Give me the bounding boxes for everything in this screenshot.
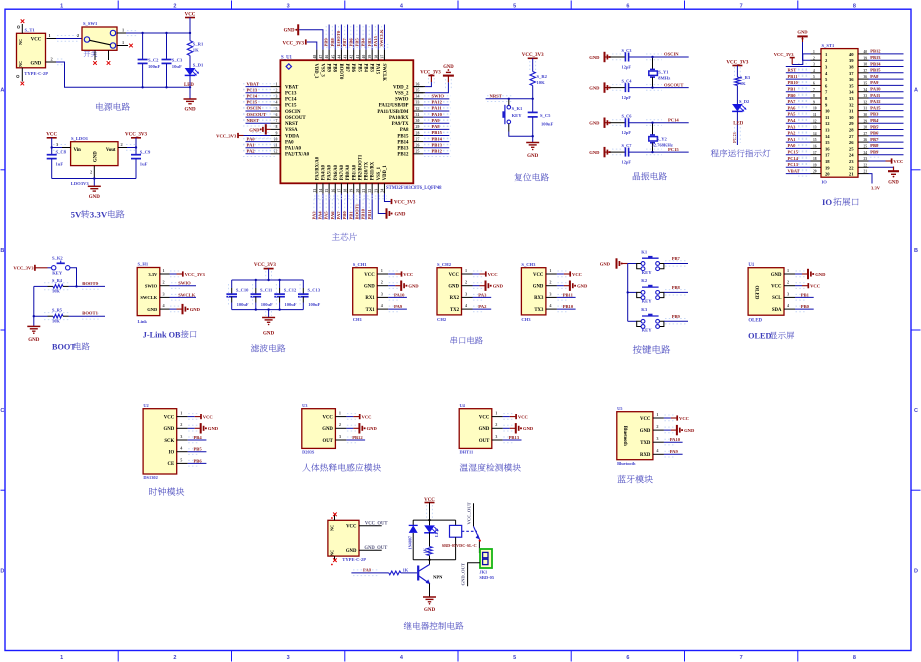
svg-text:Bluetooth: Bluetooth	[617, 461, 636, 466]
svg-text:S_D1: S_D1	[193, 63, 204, 68]
svg-text:7: 7	[740, 3, 743, 9]
svg-text:32: 32	[416, 107, 420, 111]
net label PB6 (U2 pin 5)	[188, 458, 207, 466]
net label PB5 (ST1 pin 28)	[869, 124, 904, 132]
svg-text:OLED: OLED	[748, 332, 771, 341]
svg-text:47: 47	[319, 55, 323, 59]
net label VCC_OUT	[359, 521, 388, 526]
svg-text:OUT: OUT	[322, 439, 333, 444]
svg-text:PB6: PB6	[194, 458, 203, 463]
svg-text:PB14: PB14	[397, 140, 409, 145]
net label PB0 (OLED pin 4)	[795, 304, 814, 312]
svg-text:TYPE-C-2P: TYPE-C-2P	[342, 557, 366, 562]
svg-text:SWIO: SWIO	[178, 281, 191, 286]
svg-text:37: 37	[849, 71, 854, 76]
svg-text:44: 44	[337, 55, 341, 59]
svg-text:S_R2: S_R2	[537, 74, 548, 79]
svg-text:6: 6	[276, 113, 278, 117]
svg-text:U1: U1	[748, 263, 754, 268]
ground GND (H1 pin 4)	[170, 304, 201, 314]
net label PB10 (CH3 pin 4)	[557, 304, 576, 312]
svg-text:1: 1	[122, 40, 124, 45]
capacitor S_C13 100uF	[298, 280, 321, 310]
svg-text:5: 5	[813, 75, 815, 79]
net label BOOT1	[82, 311, 98, 316]
svg-text:VCC: VCC	[679, 416, 689, 421]
net label BOOT0	[82, 281, 98, 286]
svg-text:35: 35	[849, 83, 854, 88]
svg-text:40: 40	[362, 55, 366, 59]
svg-text:D203S: D203S	[302, 450, 315, 455]
capacitor S_C12 100uF	[274, 280, 297, 310]
svg-text:PB8: PB8	[672, 285, 681, 290]
power port VCC (relay)	[424, 498, 435, 520]
net label PA2 (ST1 pin 14)	[786, 131, 811, 139]
net label PA5 (U1 bottom pin 15)	[324, 194, 329, 220]
svg-text:2: 2	[173, 655, 176, 661]
svg-text:VCC: VCC	[640, 417, 651, 422]
svg-text:PB12: PB12	[397, 153, 409, 158]
svg-text:OSCOUT: OSCOUT	[247, 112, 266, 117]
svg-text:PB1: PB1	[348, 211, 353, 220]
svg-text:15: 15	[325, 189, 329, 193]
pushbutton K1 KEY	[628, 249, 688, 274]
svg-text:3: 3	[549, 291, 551, 296]
svg-text:GND: GND	[771, 273, 782, 278]
net label PC15 (U1 pin 4)	[243, 100, 277, 108]
svg-text:VCC: VCC	[893, 159, 903, 164]
svg-text:21: 21	[864, 170, 868, 174]
svg-text:TX3: TX3	[534, 308, 544, 313]
net label PB15 (U1 pin 28)	[423, 130, 451, 138]
svg-text:16: 16	[825, 146, 830, 151]
power VCC (CH1 pin 1)	[388, 271, 413, 277]
svg-text:PA10/RX: PA10/RX	[389, 116, 409, 121]
svg-text:24: 24	[864, 151, 868, 155]
title 串口电路	[451, 336, 483, 344]
svg-text:LED: LED	[733, 122, 743, 127]
serial module S_CH3	[521, 262, 557, 322]
svg-text:Vout: Vout	[106, 148, 116, 153]
net label PB11 (ST1 pin 5)	[786, 74, 811, 82]
ground GND (BOOT)	[27, 316, 40, 343]
svg-text:21: 21	[849, 172, 854, 177]
svg-text:TX1: TX1	[366, 308, 376, 313]
svg-text:SRD-05VDC-SL-C: SRD-05VDC-SL-C	[442, 543, 477, 548]
svg-text:GND: GND	[493, 284, 504, 289]
svg-text:PB1/A0: PB1/A0	[352, 164, 357, 180]
resistor S_R5 10K	[33, 286, 105, 323]
capacitor S_C4 12pF / net OSCOUT	[589, 78, 688, 100]
svg-text:PB11: PB11	[563, 292, 574, 297]
power VCC_3V3 (VDDA pin 9)	[216, 132, 270, 138]
svg-text:PC14: PC14	[247, 94, 258, 99]
svg-text:8: 8	[276, 125, 278, 129]
dash row (top pins)	[326, 44, 389, 47]
svg-text:VCC_3V3: VCC_3V3	[13, 266, 34, 271]
resistor S_R1 1K	[187, 32, 204, 68]
svg-text:GND: GND	[589, 150, 600, 155]
net label BOOT0 (U1 top pin 44)	[336, 25, 341, 50]
svg-text:GND: GND	[577, 284, 588, 289]
svg-text:VCC_3V3: VCC_3V3	[254, 263, 276, 268]
relay coil SRD-05VDC-SL-C	[442, 520, 477, 560]
svg-text:PA3: PA3	[311, 211, 316, 220]
svg-text:PA8: PA8	[432, 124, 441, 129]
svg-text:S_Y2: S_Y2	[657, 136, 668, 141]
power VCC_3V3 (H1 pin 1)	[170, 271, 206, 277]
svg-text:33: 33	[416, 101, 420, 105]
svg-text:PB5: PB5	[870, 124, 879, 129]
svg-text:PA12: PA12	[870, 99, 881, 104]
svg-text:PA4: PA4	[318, 211, 323, 220]
svg-text:48: 48	[313, 55, 317, 59]
svg-text:42: 42	[350, 55, 354, 59]
net label SWIO (H1 pin 2)	[170, 281, 197, 289]
svg-text:GND: GND	[31, 61, 42, 66]
power VCC (CH3 pin 1)	[557, 271, 582, 277]
svg-text:5: 5	[513, 3, 516, 9]
net label PA9 (U5 pin 4)	[664, 449, 683, 457]
svg-text:6: 6	[813, 82, 815, 86]
power VCC (U4 pin 1)	[503, 414, 528, 420]
svg-text:VCC: VCC	[479, 415, 490, 420]
svg-text:8: 8	[853, 3, 856, 9]
svg-text:20: 20	[825, 172, 830, 177]
svg-text:12pF: 12pF	[622, 160, 632, 165]
capacitor S_C3 12pF / net OSCIN	[589, 48, 688, 70]
svg-text:PA12/USB/DP: PA12/USB/DP	[379, 104, 409, 109]
svg-text:OSCIN: OSCIN	[664, 52, 679, 57]
svg-text:S_C5: S_C5	[540, 113, 551, 118]
svg-text:PB0: PB0	[342, 211, 347, 220]
net label PB12 (U3 pin 3)	[346, 435, 365, 443]
svg-text:PC14: PC14	[668, 117, 679, 122]
svg-text:PB9: PB9	[672, 314, 681, 319]
svg-text:40: 40	[849, 52, 854, 57]
net label PA11 (U1 pin 32)	[423, 106, 451, 114]
svg-text:10K: 10K	[52, 289, 60, 294]
svg-text:S_C11: S_C11	[260, 287, 273, 292]
svg-text:11: 11	[813, 113, 817, 117]
power port VCC (LDO in)	[46, 133, 57, 148]
svg-text:1: 1	[60, 655, 63, 661]
net label PB4 (U1 top pin 40)	[361, 25, 366, 50]
svg-text:GND_OUT: GND_OUT	[460, 563, 465, 585]
power VCC (CH2 pin 1)	[473, 271, 498, 277]
net label PC14 (U1 pin 3)	[243, 94, 277, 102]
svg-text:GND: GND	[190, 307, 201, 312]
resistor 1K (relay LED)	[422, 547, 432, 560]
svg-text:35: 35	[864, 82, 868, 86]
svg-text:IO: IO	[169, 451, 175, 456]
svg-text:4: 4	[381, 303, 384, 308]
svg-text:10K: 10K	[52, 318, 60, 323]
net label PA12 (ST1 pin 32)	[869, 99, 904, 107]
svg-text:PA2: PA2	[478, 304, 487, 309]
svg-text:1: 1	[122, 27, 124, 32]
title 按键电路	[633, 345, 670, 354]
svg-text:GND: GND	[589, 86, 600, 91]
svg-text:29: 29	[849, 121, 854, 126]
svg-text:S_ST1: S_ST1	[822, 43, 835, 48]
svg-text:SCK: SCK	[164, 439, 174, 444]
svg-text:14: 14	[813, 132, 817, 136]
svg-text:PA12: PA12	[432, 100, 443, 105]
svg-text:PB0/A0: PB0/A0	[346, 164, 351, 180]
svg-text:KEY: KEY	[642, 328, 653, 333]
LED (relay)	[424, 520, 439, 546]
svg-text:RX2: RX2	[450, 296, 460, 301]
svg-text:VDD_2: VDD_2	[393, 85, 409, 90]
net label PB14 (U1 pin 27)	[423, 136, 451, 144]
svg-text:VSS_2: VSS_2	[395, 92, 409, 97]
svg-text:2: 2	[339, 422, 341, 427]
svg-text:PC15: PC15	[285, 104, 297, 109]
svg-text:1: 1	[465, 268, 467, 273]
dash row (bottom pins)	[314, 196, 387, 199]
svg-text:S_C3: S_C3	[622, 48, 633, 53]
svg-text:2: 2	[180, 422, 182, 427]
svg-text:27: 27	[849, 134, 854, 139]
svg-text:GND: GND	[600, 261, 611, 266]
svg-text:VCC: VCC	[362, 415, 372, 420]
pushbutton S_K1 KEY	[502, 98, 532, 137]
svg-text:PC13: PC13	[732, 132, 737, 143]
svg-text:TX2: TX2	[450, 308, 460, 313]
power VCC_3V3 (ST1 pin 1)	[774, 52, 811, 65]
svg-text:33: 33	[864, 94, 868, 98]
svg-text:8: 8	[853, 655, 856, 661]
svg-text:10uF: 10uF	[172, 64, 182, 69]
svg-text:19: 19	[825, 165, 830, 170]
svg-text:PB5: PB5	[194, 447, 203, 452]
transistor NPN	[418, 560, 443, 597]
net label PA5 (ST1 pin 11)	[786, 112, 811, 120]
svg-text:BOOT0: BOOT0	[82, 281, 98, 286]
svg-text:RXD: RXD	[640, 453, 651, 458]
svg-text:PB7: PB7	[672, 256, 681, 261]
resistor S_R3 1K	[735, 75, 751, 104]
regulator S_LDO1 LDO3V3	[71, 136, 118, 186]
svg-text:22: 22	[864, 163, 868, 167]
svg-text:K1: K1	[641, 249, 648, 254]
svg-text:3.3V: 3.3V	[90, 210, 108, 220]
svg-text:100nF: 100nF	[541, 121, 553, 126]
svg-text:TYPE-C-2P: TYPE-C-2P	[24, 71, 48, 76]
ground GND (OLED pin 1)	[795, 269, 826, 279]
svg-text:PA10: PA10	[870, 87, 881, 92]
svg-text:K3: K3	[641, 307, 648, 312]
svg-text:GND: GND	[395, 212, 406, 217]
svg-text:2: 2	[813, 56, 815, 60]
svg-text:PC13: PC13	[247, 87, 258, 92]
svg-text:PA9: PA9	[432, 118, 441, 123]
svg-text:S_K1: S_K1	[512, 106, 523, 111]
svg-text:3: 3	[656, 436, 658, 441]
title J-Link OB接口	[143, 330, 197, 339]
svg-text:SRD-05: SRD-05	[479, 575, 494, 580]
power VCC (ST1 pin 23)	[869, 158, 904, 164]
svg-text:PB11/RX: PB11/RX	[371, 161, 376, 180]
pushbutton S_K2 KEY	[52, 256, 77, 287]
svg-text:GND: GND	[89, 195, 101, 200]
net label PA3 (ST1 pin 13)	[786, 124, 811, 132]
svg-text:VCC: VCC	[364, 273, 375, 278]
net label PB9 (U1 top pin 46)	[324, 25, 329, 50]
svg-text:S_R5: S_R5	[52, 308, 63, 313]
svg-text:PA1: PA1	[788, 137, 797, 142]
svg-text:S_C9: S_C9	[140, 150, 151, 155]
svg-text:PA7: PA7	[336, 211, 341, 220]
svg-text:S_U1: S_U1	[281, 55, 293, 60]
svg-text:VCC_OUT: VCC_OUT	[365, 521, 389, 526]
svg-text:VDD_3: VDD_3	[313, 64, 318, 79]
svg-text:PB11: PB11	[788, 74, 799, 79]
svg-text:PA3: PA3	[788, 124, 797, 129]
svg-text:12: 12	[813, 119, 817, 123]
wire GND_OUT from JK1	[460, 563, 480, 587]
svg-text:PA5: PA5	[324, 211, 329, 220]
svg-text:16: 16	[813, 145, 817, 149]
svg-text:1K: 1K	[422, 547, 427, 553]
net label SWCLK (U1 top pin 37)	[379, 25, 384, 50]
svg-text:PA2/TX/A0: PA2/TX/A0	[285, 153, 310, 158]
svg-text:VCC: VCC	[403, 272, 413, 277]
svg-text:PA0: PA0	[788, 143, 797, 148]
svg-text:3.3V: 3.3V	[148, 272, 158, 277]
power port VCC_3V3 (filter)	[254, 263, 276, 280]
resistor 1K (base)	[389, 567, 417, 575]
svg-text:GND: GND	[448, 285, 459, 290]
svg-text:GND: GND	[533, 285, 544, 290]
svg-text:C: C	[0, 408, 4, 414]
svg-text:SWCLK: SWCLK	[140, 295, 157, 300]
svg-text:18: 18	[813, 157, 817, 161]
net label PB9	[672, 314, 681, 319]
svg-text:PA9: PA9	[670, 449, 679, 454]
ground GND (U4 pin 2)	[503, 423, 534, 433]
svg-text:18: 18	[825, 159, 830, 164]
svg-text:NRST: NRST	[247, 118, 259, 123]
net label PB6 (ST1 pin 27)	[869, 131, 904, 139]
net label PA0 (ST1 pin 16)	[786, 143, 811, 151]
svg-text:20: 20	[813, 170, 817, 174]
ground GND	[184, 87, 197, 112]
svg-text:IO: IO	[822, 179, 828, 184]
svg-text:VCC: VCC	[449, 273, 460, 278]
svg-text:VCC_OUT: VCC_OUT	[466, 502, 471, 524]
net label PB3 (U1 top pin 39)	[367, 25, 372, 50]
svg-text:S_C8: S_C8	[56, 150, 67, 155]
svg-text:3: 3	[813, 63, 815, 67]
net label PB1 (U1 bottom pin 19)	[348, 194, 353, 220]
svg-text:12pF: 12pF	[622, 65, 632, 70]
svg-text:PA7/A0: PA7/A0	[340, 164, 345, 180]
svg-text:OSCIN: OSCIN	[285, 110, 301, 115]
svg-text:VBAT: VBAT	[247, 81, 259, 86]
net label PB12 (ST1 pin 40)	[869, 49, 904, 57]
svg-text:PA15: PA15	[870, 105, 881, 110]
svg-text:VCC_3V3: VCC_3V3	[726, 60, 748, 65]
ground GND (U2 pin 2)	[188, 423, 219, 433]
no-connect switch pin	[117, 40, 133, 48]
svg-text:5: 5	[513, 655, 516, 661]
power port VCC_3V3 (LDO out)	[125, 133, 147, 148]
svg-text:22: 22	[368, 189, 372, 193]
svg-text:2: 2	[495, 422, 497, 427]
svg-text:A: A	[0, 88, 4, 94]
svg-text:100uF: 100uF	[261, 302, 273, 307]
net label PB6 (U1 top pin 42)	[348, 25, 353, 50]
svg-text:31: 31	[864, 107, 868, 111]
svg-text:PC15: PC15	[788, 150, 799, 155]
svg-text:VCC: VCC	[810, 284, 820, 289]
svg-text:VSSA: VSSA	[285, 128, 298, 133]
svg-text:PB7: PB7	[870, 137, 879, 142]
svg-text:GND: GND	[263, 332, 275, 337]
svg-text:8: 8	[813, 94, 815, 98]
svg-text:10: 10	[274, 137, 278, 141]
svg-text:31: 31	[416, 113, 420, 117]
svg-text:RX1: RX1	[365, 296, 375, 301]
svg-text:VCC: VCC	[346, 525, 357, 530]
net label PB13 (U1 pin 26)	[423, 142, 451, 150]
svg-text:PA6: PA6	[788, 105, 797, 110]
svg-text:4: 4	[656, 448, 659, 453]
wire relay rails	[413, 519, 455, 561]
net label PB11 (U1 bottom pin 22)	[367, 194, 372, 220]
svg-text:32.768KHz: 32.768KHz	[652, 143, 673, 148]
serial module S_CH1	[353, 262, 389, 322]
svg-text:31: 31	[849, 109, 854, 114]
net label PC15 (ST1 pin 17)	[786, 150, 811, 158]
svg-text:4: 4	[163, 303, 166, 308]
svg-text:33: 33	[849, 96, 854, 101]
svg-text:PB14: PB14	[432, 136, 443, 141]
svg-text:PA4/A0: PA4/A0	[322, 164, 327, 180]
title 温湿度检测模块	[460, 463, 521, 471]
svg-text:GND: GND	[93, 151, 98, 162]
svg-text:PA9: PA9	[870, 80, 879, 85]
svg-text:U5: U5	[617, 406, 623, 411]
title 时钟模块	[149, 487, 184, 495]
svg-text:GND: GND	[367, 426, 378, 431]
svg-text:VDDA: VDDA	[285, 134, 300, 139]
svg-text:NC: NC	[330, 550, 335, 556]
svg-text:PB1: PB1	[801, 292, 810, 297]
svg-text:1: 1	[495, 411, 497, 416]
svg-text:35: 35	[416, 89, 420, 93]
svg-text:SDA: SDA	[772, 308, 782, 313]
svg-text:26: 26	[864, 138, 868, 142]
svg-text:GND: GND	[479, 427, 490, 432]
svg-text:8MHz: 8MHz	[658, 76, 670, 81]
svg-text:PB5: PB5	[356, 64, 361, 73]
IC S_U1 STM32F103C8T6_LQFP48	[270, 50, 442, 194]
svg-text:GND: GND	[346, 549, 357, 554]
svg-text:PA10: PA10	[670, 437, 681, 442]
svg-text:GND_OUT: GND_OUT	[364, 546, 388, 551]
svg-text:10K: 10K	[537, 80, 546, 85]
net label PB13 (U4 pin 3)	[503, 435, 522, 443]
svg-text:17: 17	[813, 151, 817, 155]
svg-text:GND: GND	[184, 108, 196, 113]
svg-text:GND: GND	[28, 338, 40, 343]
svg-text:PC13: PC13	[788, 162, 799, 167]
svg-text:SWCLK: SWCLK	[381, 64, 386, 82]
svg-text:J-Link OB: J-Link OB	[143, 330, 181, 339]
